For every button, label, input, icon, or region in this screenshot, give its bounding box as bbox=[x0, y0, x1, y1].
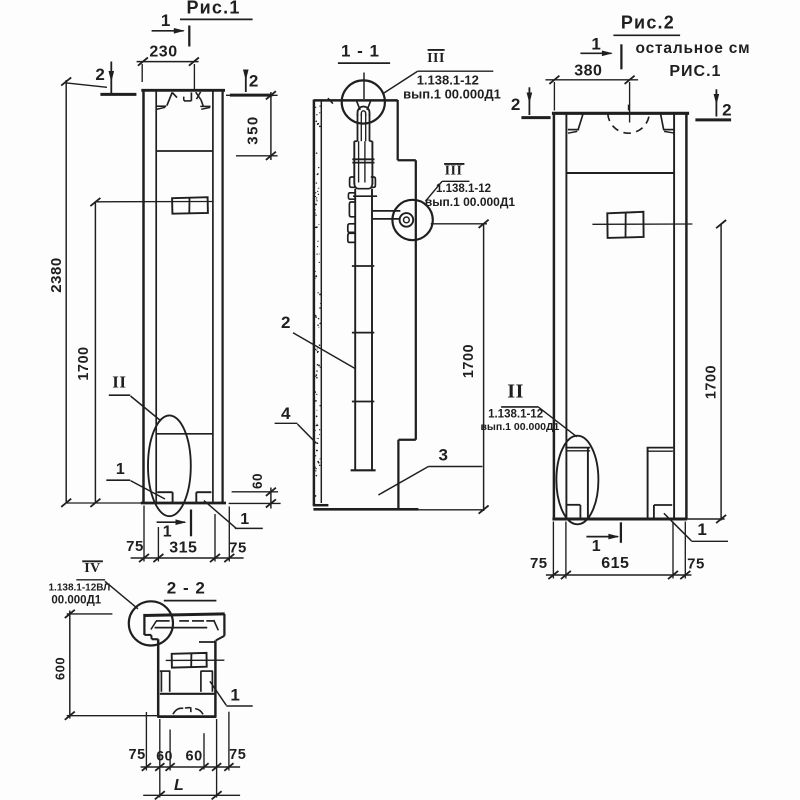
svg-text:75: 75 bbox=[530, 555, 548, 572]
svg-text:1: 1 bbox=[161, 11, 171, 30]
svg-text:вып.1 00.000Д1: вып.1 00.000Д1 bbox=[480, 421, 559, 433]
svg-text:III: III bbox=[445, 164, 463, 179]
svg-text:350: 350 bbox=[244, 115, 261, 145]
svg-text:L: L bbox=[174, 777, 184, 794]
svg-text:II: II bbox=[112, 373, 126, 392]
svg-text:75: 75 bbox=[229, 747, 246, 763]
svg-text:остальное см: остальное см bbox=[636, 40, 751, 57]
svg-text:600: 600 bbox=[52, 657, 67, 680]
svg-text:1700: 1700 bbox=[76, 346, 92, 380]
svg-text:60: 60 bbox=[250, 473, 265, 489]
svg-text:4: 4 bbox=[281, 404, 291, 423]
svg-text:60: 60 bbox=[186, 749, 203, 765]
svg-text:2: 2 bbox=[249, 71, 259, 90]
svg-text:2380: 2380 bbox=[48, 257, 65, 292]
svg-text:75: 75 bbox=[126, 538, 144, 555]
svg-text:вып.1 00.000Д1: вып.1 00.000Д1 bbox=[403, 86, 501, 101]
svg-text:3: 3 bbox=[439, 445, 449, 464]
svg-text:1: 1 bbox=[240, 511, 249, 528]
svg-text:1: 1 bbox=[591, 34, 601, 53]
svg-text:00.000Д1: 00.000Д1 bbox=[51, 594, 101, 606]
svg-text:вып.1 00.000Д1: вып.1 00.000Д1 bbox=[425, 195, 515, 209]
svg-text:1.138.1-12ВЛ: 1.138.1-12ВЛ bbox=[48, 582, 110, 593]
svg-text:75: 75 bbox=[129, 747, 146, 763]
svg-text:380: 380 bbox=[574, 63, 602, 80]
svg-text:1.138.1-12: 1.138.1-12 bbox=[436, 183, 491, 195]
svg-text:Рис.2: Рис.2 bbox=[621, 13, 675, 33]
svg-text:2: 2 bbox=[722, 100, 732, 119]
svg-text:1.138.1-12: 1.138.1-12 bbox=[417, 72, 479, 87]
svg-text:II: II bbox=[507, 381, 524, 403]
svg-text:1: 1 bbox=[230, 685, 240, 704]
svg-text:1: 1 bbox=[163, 524, 172, 541]
svg-text:IV: IV bbox=[84, 561, 101, 576]
svg-text:75: 75 bbox=[687, 555, 705, 572]
svg-text:2: 2 bbox=[95, 65, 105, 84]
svg-text:2: 2 bbox=[281, 313, 291, 332]
svg-text:60: 60 bbox=[156, 747, 173, 763]
svg-text:615: 615 bbox=[601, 555, 629, 572]
svg-text:III: III bbox=[427, 51, 445, 66]
svg-text:1: 1 bbox=[116, 461, 125, 478]
svg-text:2: 2 bbox=[511, 95, 521, 114]
svg-text:1700: 1700 bbox=[704, 365, 720, 399]
svg-text:315: 315 bbox=[169, 540, 197, 557]
svg-text:75: 75 bbox=[229, 539, 247, 556]
svg-text:Рис.1: Рис.1 bbox=[186, 0, 240, 17]
svg-text:1: 1 bbox=[697, 520, 707, 539]
svg-text:1: 1 bbox=[592, 538, 601, 555]
svg-text:РИС.1: РИС.1 bbox=[669, 63, 721, 80]
svg-text:1 - 1: 1 - 1 bbox=[341, 41, 380, 60]
svg-text:1700: 1700 bbox=[461, 344, 477, 378]
svg-text:230: 230 bbox=[149, 44, 177, 61]
svg-text:2 - 2: 2 - 2 bbox=[167, 578, 206, 597]
svg-text:1.138.1-12: 1.138.1-12 bbox=[488, 409, 543, 421]
